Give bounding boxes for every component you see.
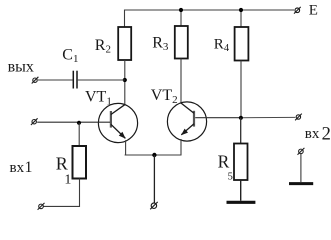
wire R4 top stub: [240, 10, 242, 27]
resistor R5: [234, 144, 248, 181]
resistor R4: [235, 27, 249, 61]
svg-text:VT1: VT1: [85, 88, 112, 107]
wire R3 bottom to VT2 collector: [180, 59, 182, 104]
wire R2 bottom to VT1 collector: [124, 60, 126, 104]
capacitor C1: [73, 71, 77, 89]
terminal bottom-center: [150, 202, 158, 209]
resistor R1: [73, 146, 87, 179]
terminal bottom-left: [38, 203, 45, 210]
wire вх1 to VT1 base: [37, 121, 110, 123]
wire terminal to C1: [38, 79, 73, 81]
ground under R5: [227, 201, 256, 204]
transistor VT2: [167, 102, 206, 141]
svg-text:R: R: [56, 153, 68, 173]
junction emitter rail center: [152, 153, 156, 157]
svg-text:VT2: VT2: [151, 87, 178, 106]
junction C1-R2-collector: [123, 78, 127, 82]
wire common emitter rail: [125, 154, 182, 156]
wire R3 top stub: [180, 10, 182, 26]
svg-text:R: R: [218, 151, 230, 171]
svg-text:R2: R2: [95, 37, 111, 56]
svg-text:5: 5: [228, 171, 233, 182]
junction base1-R1: [77, 121, 81, 125]
svg-text:вых: вых: [8, 59, 34, 76]
terminal вх2: [295, 114, 302, 121]
wire R1 bottom to terminal: [43, 179, 79, 207]
junction rail-R4: [239, 8, 243, 12]
wire center node down: [153, 155, 155, 203]
wire right terminal to ground: [300, 154, 302, 182]
terminal вх1: [31, 118, 38, 125]
wire VT2 emitter down: [180, 139, 182, 155]
resistor R3: [175, 26, 188, 59]
wire R4 bottom to node: [240, 61, 242, 118]
wire VT1 emitter down: [125, 140, 127, 155]
ground right: [289, 182, 313, 185]
junction rail-R3: [179, 8, 183, 12]
wire node to R5: [240, 118, 242, 144]
wire C1 to junction: [78, 79, 125, 81]
svg-text:1: 1: [64, 173, 71, 188]
svg-text:вх1: вх1: [10, 159, 33, 176]
wire top supply rail: [125, 10, 295, 27]
junction base2-R4-R5: [239, 116, 243, 120]
svg-text:R4: R4: [214, 37, 230, 55]
wire VT2 base to вх2 terminal: [195, 117, 241, 119]
resistor R2: [118, 27, 131, 60]
terminal right-lower: [298, 148, 305, 155]
wire R5 bottom to ground: [240, 180, 242, 201]
transistor VT1: [98, 103, 137, 142]
terminal E: [294, 7, 301, 14]
svg-text:E: E: [309, 3, 318, 19]
svg-text:R3: R3: [152, 34, 169, 53]
wire junction to R1: [78, 123, 80, 146]
svg-text:вх2: вх2: [305, 124, 331, 144]
terminal вых: [32, 77, 39, 84]
svg-text:C1: C1: [62, 46, 78, 65]
